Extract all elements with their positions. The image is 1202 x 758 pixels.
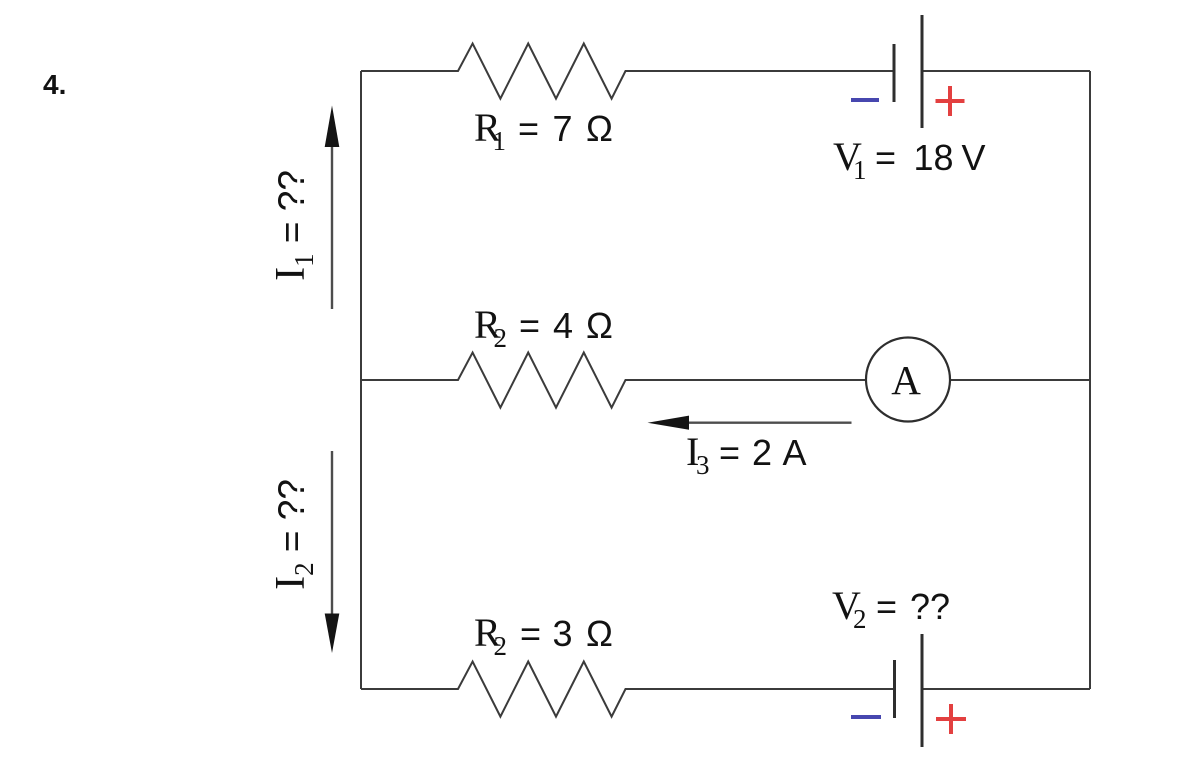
svg-text:V1=18V: V1=18V <box>833 134 986 185</box>
svg-text:R1=7Ω: R1=7Ω <box>474 105 613 156</box>
svg-text:V2=??: V2=?? <box>832 583 950 634</box>
svg-text:I3=2A: I3=2A <box>686 429 807 480</box>
svg-text:I2 = ??: I2 = ?? <box>268 479 319 590</box>
svg-text:A: A <box>891 357 921 403</box>
svg-text:R2=3Ω: R2=3Ω <box>474 610 613 661</box>
svg-text:R2=4Ω: R2=4Ω <box>474 302 613 353</box>
svg-text:I1 = ??: I1 = ?? <box>268 170 319 281</box>
svg-text:4.: 4. <box>43 69 66 100</box>
